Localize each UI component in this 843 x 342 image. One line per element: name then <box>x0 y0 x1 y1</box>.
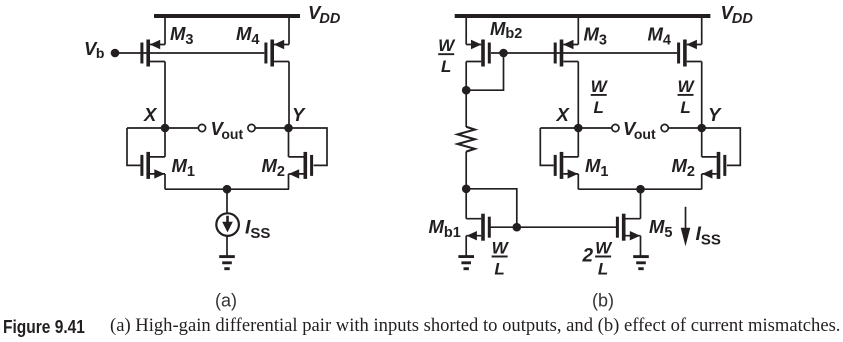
svg-text:W: W <box>492 239 510 258</box>
svg-text:Mb2: Mb2 <box>490 18 522 42</box>
svg-text:ISS: ISS <box>245 217 270 243</box>
svg-text:L: L <box>594 98 604 117</box>
svg-text:L: L <box>441 57 451 76</box>
svg-text:W: W <box>595 239 613 258</box>
svg-text:L: L <box>680 98 690 117</box>
svg-text:Vout: Vout <box>623 118 656 142</box>
svg-text:X: X <box>556 104 571 125</box>
svg-text:M3: M3 <box>584 24 608 49</box>
svg-text:Vb: Vb <box>84 38 104 61</box>
svg-text:Mb1: Mb1 <box>429 216 461 241</box>
svg-text:M2: M2 <box>672 155 696 180</box>
svg-text:L: L <box>598 260 608 279</box>
svg-text:VDD: VDD <box>308 2 341 27</box>
svg-text:W: W <box>591 77 609 96</box>
svg-text:Vout: Vout <box>211 118 244 142</box>
svg-text:Y: Y <box>708 104 722 125</box>
svg-text:M1: M1 <box>172 155 196 180</box>
svg-text:L: L <box>494 260 504 279</box>
svg-text:W: W <box>438 36 456 55</box>
svg-text:W: W <box>677 77 695 96</box>
svg-text:M2: M2 <box>262 155 286 180</box>
svg-text:M4: M4 <box>236 23 260 48</box>
svg-text:(a): (a) <box>215 291 237 311</box>
svg-text:M4: M4 <box>648 24 672 49</box>
svg-text:(b): (b) <box>592 291 614 311</box>
svg-text:ISS: ISS <box>696 223 721 249</box>
svg-text:X: X <box>143 104 158 125</box>
svg-text:M3: M3 <box>170 23 194 48</box>
svg-text:M5: M5 <box>649 216 673 241</box>
svg-text:Y: Y <box>292 104 306 125</box>
svg-text:M1: M1 <box>585 155 609 180</box>
svg-text:2: 2 <box>582 246 594 267</box>
svg-text:VDD: VDD <box>721 2 754 27</box>
